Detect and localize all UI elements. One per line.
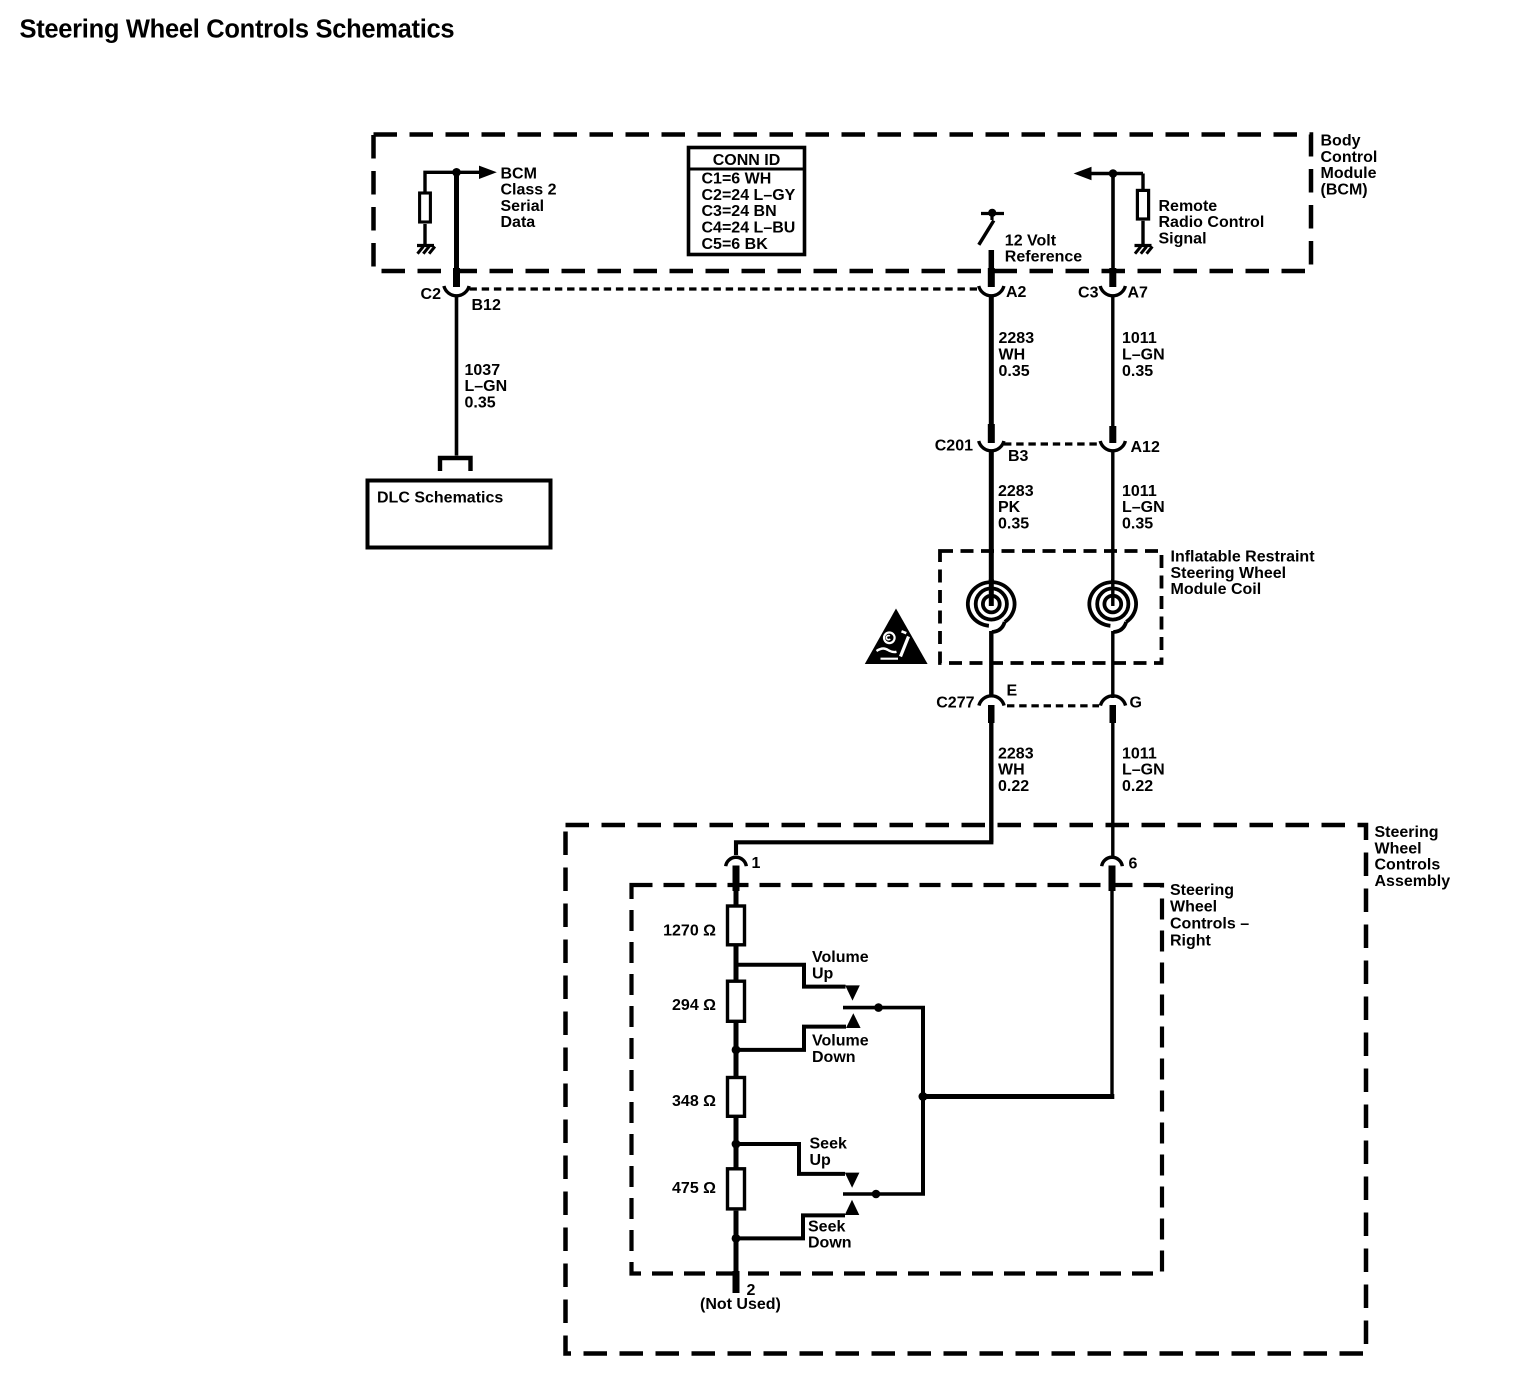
wire: connector face dashed line C2 to A2 (470, 287, 978, 290)
node: remote radio junction (1109, 169, 1118, 178)
svg-text:Up: Up (810, 1152, 832, 1169)
node: seek bar junction (872, 1190, 881, 1199)
module box: Inflatable Restraint Steering Wheel Module Coil (940, 551, 1162, 663)
svg-text:E: E (1007, 683, 1018, 700)
node: volume down junction (732, 1046, 741, 1055)
svg-text:L–GN: L–GN (465, 378, 508, 395)
wire: switch common vertical (921, 1008, 925, 1194)
svg-text:2283: 2283 (998, 483, 1034, 500)
svg-text:Radio Control: Radio Control (1159, 214, 1265, 231)
svg-text:0.35: 0.35 (999, 363, 1030, 380)
pin: pin 2 stub (not used) (733, 1271, 740, 1293)
svg-text:C2=24 L–GY: C2=24 L–GY (702, 187, 796, 204)
svg-text:Assembly: Assembly (1375, 873, 1451, 890)
node: seek up junction (732, 1140, 741, 1149)
table: CONN ID legend box (689, 148, 805, 255)
svg-text:WH: WH (999, 347, 1026, 364)
svg-text:Signal: Signal (1159, 231, 1207, 248)
resistor: BCM class-2 internal pull-up (420, 193, 431, 222)
wire: circuit 1011 L-GN 0.35 lower (1111, 451, 1114, 581)
pin: A2 terminal stub (988, 268, 995, 287)
svg-text:Class 2: Class 2 (501, 182, 557, 199)
switch contact arrow: seek down (845, 1200, 860, 1215)
svg-text:0.35: 0.35 (1122, 515, 1153, 532)
svg-text:DLC Schematics: DLC Schematics (377, 490, 503, 507)
switch: seek rocker common bar (843, 1192, 925, 1196)
connector C277 terminal G (1100, 696, 1125, 706)
inductor: left coil of module (circuit 2283) (983, 596, 1000, 613)
wire: right coil to connector C277 G (1111, 631, 1114, 698)
svg-text:L–GN: L–GN (1122, 347, 1165, 364)
switch contact arrow: volume up (845, 985, 860, 1000)
svg-text:Control: Control (1321, 149, 1378, 166)
pin: C277 E stub (988, 705, 995, 723)
svg-text:1270 Ω: 1270 Ω (663, 922, 716, 939)
svg-text:Controls –: Controls – (1170, 916, 1249, 933)
pin: C277 G stub (1110, 705, 1117, 723)
svg-text:L–GN: L–GN (1122, 499, 1165, 516)
svg-text:(Not Used): (Not Used) (700, 1296, 781, 1313)
svg-text:2283: 2283 (998, 745, 1034, 762)
wire: volume down branch (736, 1027, 846, 1050)
node: seek down junction (732, 1234, 741, 1243)
svg-text:12 Volt: 12 Volt (1005, 232, 1057, 249)
svg-text:Steering Wheel: Steering Wheel (1171, 565, 1287, 582)
svg-text:G: G (1130, 694, 1142, 711)
wire: chain segment R2-R3 (734, 1023, 739, 1076)
svg-text:C277: C277 (936, 694, 974, 711)
wire: resistor bottom to ground (423, 224, 426, 244)
svg-text:C1=6 WH: C1=6 WH (702, 171, 772, 188)
resistor R1 1270 ohm (728, 906, 745, 945)
pin: pin 1 stub (733, 866, 740, 892)
wire: chain segment R3-R4 (734, 1118, 739, 1168)
svg-text:1011: 1011 (1122, 483, 1157, 500)
svg-text:C3: C3 (1078, 285, 1099, 302)
svg-text:Volume: Volume (812, 949, 869, 966)
pin: C2 terminal B12 stub (453, 268, 460, 287)
svg-text:A12: A12 (1131, 439, 1160, 456)
module box: Steering Wheel Controls Assembly dashed outline (566, 825, 1367, 1354)
svg-text:1037: 1037 (465, 362, 501, 379)
svg-text:Steering: Steering (1170, 882, 1234, 899)
wire: pin 6 to switch output (1110, 889, 1113, 1097)
svg-text:348 Ω: 348 Ω (672, 1093, 716, 1110)
svg-text:Seek: Seek (808, 1219, 845, 1236)
svg-text:1011: 1011 (1122, 745, 1157, 762)
svg-text:0.35: 0.35 (465, 395, 496, 412)
svg-text:Serial: Serial (501, 198, 545, 215)
wire: jog from 2283 wire to pin 1 (736, 842, 993, 855)
svg-text:BCM: BCM (501, 165, 537, 182)
wire: switch output to pin 6 (923, 1094, 1114, 1099)
wire: BCM class 2 vertical to connector C2 (454, 172, 459, 269)
svg-text:Wheel: Wheel (1375, 840, 1422, 857)
svg-text:Reference: Reference (1005, 249, 1082, 266)
connector A2 (BCM) (979, 286, 1004, 296)
svg-text:Down: Down (812, 1049, 856, 1066)
svg-text:L–GN: L–GN (1122, 762, 1165, 779)
connector: assembly pin 1 (726, 857, 747, 866)
svg-text:C3=24 BN: C3=24 BN (702, 203, 777, 220)
node: volume bar junction (874, 1003, 883, 1012)
svg-text:Module: Module (1321, 165, 1377, 182)
svg-text:294 Ω: 294 Ω (672, 997, 716, 1014)
svg-text:CONN ID: CONN ID (713, 152, 781, 169)
module box: Body Control Module (BCM) dashed outline (374, 135, 1312, 272)
svg-text:Module Coil: Module Coil (1171, 581, 1262, 598)
svg-text:B3: B3 (1008, 448, 1029, 465)
resistor R4 475 ohm (728, 1169, 745, 1209)
pin: pin 6 stub (1109, 866, 1116, 892)
svg-text:6: 6 (1129, 856, 1138, 873)
svg-text:Down: Down (808, 1235, 852, 1252)
svg-text:0.22: 0.22 (1122, 778, 1153, 795)
symbol: SIR caution triangle (865, 609, 928, 665)
arrow: BCM Class 2 Serial Data signal (457, 171, 480, 174)
svg-text:0.35: 0.35 (1122, 363, 1153, 380)
wire: volume up branch (736, 965, 846, 987)
svg-text:C4=24 L–BU: C4=24 L–BU (702, 220, 796, 237)
switch: 12 volt reference contact (981, 212, 1004, 215)
resistor R3 348 ohm (728, 1078, 745, 1117)
svg-text:0.22: 0.22 (998, 778, 1029, 795)
pin: C201 terminal B3 stub (988, 424, 995, 443)
svg-text:Right: Right (1170, 932, 1212, 949)
svg-text:Up: Up (812, 966, 834, 983)
resistor: BCM remote radio internal pull-up (1137, 190, 1148, 219)
svg-text:Seek: Seek (810, 1135, 847, 1152)
connector: assembly pin 6 (1102, 857, 1123, 866)
arrow: Remote Radio Control Signal (points left) (1074, 167, 1092, 180)
wire: connector face dashed line C201 (1004, 442, 1099, 445)
terminal: off-page bracket to DLC (440, 458, 471, 471)
ground: BCM left internal ground (417, 244, 434, 247)
svg-text:PK: PK (998, 499, 1021, 516)
ground: BCM right internal ground (1135, 244, 1152, 247)
svg-text:Remote: Remote (1159, 198, 1218, 215)
svg-text:1011: 1011 (1122, 330, 1157, 347)
wire: chain segment R4 to pin 2 (734, 1211, 739, 1274)
svg-text:Steering Wheel Controls Schema: Steering Wheel Controls Schematics (20, 16, 455, 44)
wire: circuit 1037 L-GN 0.35 (455, 295, 459, 456)
svg-text:C2: C2 (421, 286, 442, 303)
wire: resistor top to junction (425, 172, 457, 191)
wire: resistor to ground (1141, 221, 1144, 244)
svg-text:2283: 2283 (999, 330, 1035, 347)
wire: circuit 2283 PK 0.35 (989, 450, 994, 581)
svg-text:Wheel: Wheel (1170, 899, 1217, 916)
wire: seek up branch (736, 1144, 845, 1174)
connector C201 terminal A12 (1100, 441, 1125, 451)
pin: A7 terminal stub (1109, 268, 1116, 287)
wire: circuit 1011 L-GN 0.35 upper (1111, 295, 1114, 428)
inductor: right coil of module (circuit 1011) (1104, 596, 1121, 613)
svg-text:Volume: Volume (812, 1033, 869, 1050)
svg-text:475 Ω: 475 Ω (672, 1180, 716, 1197)
pin: A12 terminal stub (1109, 426, 1116, 443)
svg-text:Steering: Steering (1375, 824, 1439, 841)
wire: 12 volt reference down to connector A2 (989, 250, 995, 269)
node: class 2 serial data junction (452, 168, 461, 177)
svg-text:B12: B12 (472, 297, 501, 314)
wire: junction down to internal resistor (1141, 174, 1144, 190)
resistor R2 294 ohm (728, 981, 745, 1021)
wire: pin 1 to resistor chain (734, 889, 739, 905)
svg-text:Body: Body (1321, 133, 1361, 150)
svg-text:C201: C201 (935, 437, 973, 454)
svg-text:1: 1 (752, 855, 761, 872)
wire: connector face dashed line C277 (1007, 704, 1099, 707)
svg-text:C5=6 BK: C5=6 BK (702, 236, 769, 253)
svg-text:Data: Data (501, 214, 536, 231)
wire: seek down branch (736, 1215, 845, 1238)
node: switch output junction (919, 1092, 928, 1101)
svg-text:WH: WH (998, 762, 1025, 779)
svg-text:Controls: Controls (1375, 857, 1441, 874)
module box: Steering Wheel Controls - Right dashed outline (632, 885, 1163, 1274)
wire: remote radio vertical to connector A7 (1111, 174, 1115, 270)
wire: circuit 1011 L-GN 0.22 (1111, 721, 1114, 857)
switch: volume rocker common bar (843, 1006, 925, 1010)
wire: left coil to connector C277 E (989, 631, 993, 697)
svg-text:A2: A2 (1006, 284, 1027, 301)
box: DLC Schematics reference (368, 481, 551, 548)
svg-text:Inflatable Restraint: Inflatable Restraint (1171, 549, 1316, 566)
wire: chain segment R1-R2 (734, 947, 739, 981)
wire: circuit 2283 WH 0.35 (989, 295, 994, 426)
svg-text:A7: A7 (1128, 285, 1149, 302)
wire: circuit 2283 WH 0.22 (989, 721, 993, 842)
switch contact arrow: volume down (846, 1013, 861, 1028)
svg-text:(BCM): (BCM) (1321, 181, 1368, 198)
svg-text:0.35: 0.35 (998, 515, 1029, 532)
switch contact arrow: seek up (845, 1173, 860, 1188)
